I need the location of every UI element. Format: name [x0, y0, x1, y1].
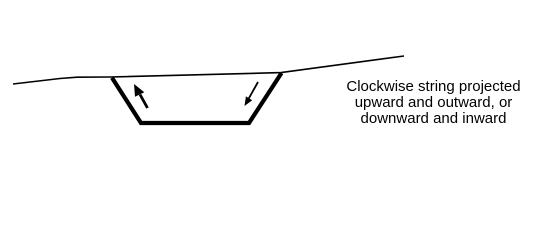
left arrow (up-outward): [134, 84, 148, 108]
ground line: [13, 56, 404, 84]
caption text: [328, 79, 539, 127]
trapezoid channel: [112, 73, 282, 123]
right arrow (down-inward): [245, 82, 259, 106]
channel cross-section diagram: [0, 0, 548, 149]
